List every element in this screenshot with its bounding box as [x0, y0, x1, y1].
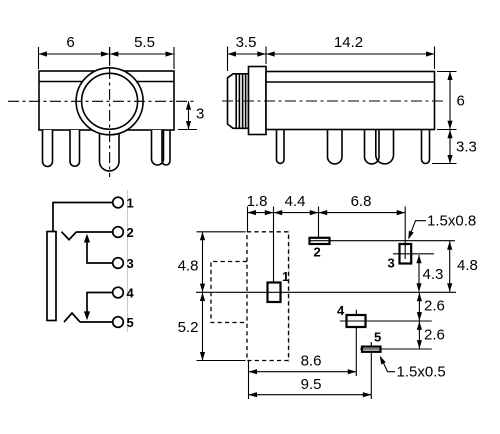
- arrow 9.5 left: [249, 392, 258, 397]
- side body inner edge line: [266, 81, 435, 83]
- pad5 vertical ext: [370, 342, 372, 399]
- svg-text:6.8: 6.8: [351, 193, 372, 210]
- ring contact chevron (pin5): [64, 313, 80, 322]
- pad2 level line: [310, 240, 456, 242]
- front dimension line 6 / 5.5: [39, 53, 175, 55]
- leader arrow 1.5x0.5: [380, 356, 386, 365]
- side pin 1: [277, 130, 285, 164]
- side pin 4 (overlapping): [376, 130, 394, 164]
- arrow 4.8 up: [200, 232, 205, 241]
- pad2: [310, 238, 330, 244]
- dim line 2.6 lower: [418, 321, 420, 349]
- arrow 6.8 right: [397, 210, 406, 215]
- front body inner edge line: [39, 81, 174, 83]
- thread line 1: [235, 74, 237, 128]
- arrow 14.2 right: [426, 51, 435, 56]
- dim line 4.3: [418, 255, 420, 291]
- side pin 3: [365, 130, 380, 164]
- side right ext mid: [437, 129, 457, 131]
- jack sleeve bar: [47, 232, 56, 321]
- svg-text:9.5: 9.5: [301, 376, 322, 393]
- side dim extension mid (flange right): [265, 47, 267, 65]
- bushing outline dashed: [211, 262, 247, 323]
- front body outline: [39, 71, 174, 130]
- arrow 3.3 down: [447, 155, 452, 164]
- side pin 5: [422, 130, 430, 164]
- arrow 5.5 right: [166, 51, 175, 56]
- tip contact V (pin2): [62, 232, 77, 240]
- front pin B: [70, 130, 80, 166]
- arrow 4.4 left: [274, 210, 283, 215]
- leader 1.5x0.8: [409, 221, 426, 238]
- svg-text:3.3: 3.3: [456, 139, 477, 156]
- faint table rule: [127, 190, 129, 332]
- body outline dashed: [247, 232, 289, 361]
- left ext top: [197, 231, 246, 233]
- front pin C (center): [100, 130, 120, 171]
- side dim line 6: [449, 72, 451, 130]
- terminal circle 2: [113, 227, 124, 238]
- svg-text:1: 1: [282, 269, 289, 284]
- arrow 6 up: [447, 72, 452, 81]
- svg-text:6: 6: [457, 93, 465, 110]
- svg-text:3.5: 3.5: [236, 34, 257, 51]
- svg-text:5.2: 5.2: [178, 319, 199, 336]
- svg-text:4.8: 4.8: [457, 257, 478, 274]
- arrow 5.5 left: [110, 51, 119, 56]
- side right ext bottom: [432, 163, 457, 165]
- svg-text:1.8: 1.8: [247, 193, 268, 210]
- arrow 6 right: [101, 51, 110, 56]
- top dimension line: [248, 212, 406, 214]
- svg-text:1: 1: [127, 196, 134, 211]
- svg-text:3: 3: [127, 256, 134, 271]
- arrow 2.6a down: [417, 312, 422, 321]
- side dim extension right (body right): [434, 47, 436, 70]
- thread line 3: [242, 74, 244, 129]
- left ext bottom: [197, 360, 246, 362]
- wire pin2: [77, 231, 113, 233]
- arrow 3.5 right: [257, 51, 266, 56]
- arrow 4.8r up: [447, 241, 452, 250]
- switch arrow up (pin3 to pin2): [84, 234, 90, 243]
- leader arrow 1.5x0.8: [408, 231, 413, 240]
- svg-text:8.6: 8.6: [301, 353, 322, 370]
- thread line 2: [238, 74, 240, 129]
- svg-text:5: 5: [374, 330, 381, 345]
- arrow 8.6 left: [249, 369, 258, 374]
- leader 1.5x0.5: [381, 358, 395, 372]
- svg-text:2: 2: [314, 245, 321, 260]
- pad4 level line: [340, 320, 432, 322]
- svg-text:2.6: 2.6: [424, 297, 445, 314]
- arrow 5.2 up: [200, 293, 205, 302]
- svg-text:4.4: 4.4: [285, 193, 306, 210]
- svg-text:3: 3: [196, 106, 204, 123]
- left dim line 4.8/5.2: [202, 232, 204, 361]
- front dim 3: extension at bottom: [178, 129, 197, 131]
- pad3: [400, 244, 412, 264]
- arrow 8.6 right: [348, 369, 357, 374]
- front dim 3: dimension line: [188, 101, 190, 129]
- arrow 4.3 down: [416, 283, 421, 292]
- terminal circle 5: [113, 317, 124, 328]
- front dim extension line center: [109, 47, 111, 66]
- pad5: [362, 347, 381, 352]
- side body outline: [266, 72, 435, 130]
- svg-text:4.8: 4.8: [178, 258, 199, 275]
- ext line pad3 center: [404, 207, 406, 260]
- side right ext top: [437, 71, 457, 73]
- front jack bushing outer circle: [76, 68, 143, 135]
- pad4 vertical ext: [355, 310, 357, 376]
- side dim extension left (bushing): [227, 47, 229, 72]
- ext line pad2 center: [318, 207, 320, 238]
- arrow 4.3 up: [416, 255, 421, 263]
- svg-text:1.5x0.8: 1.5x0.8: [427, 212, 476, 229]
- arrow 3.3 up: [447, 130, 452, 139]
- arrow 2.6a up: [417, 293, 422, 302]
- arrow 4.8r down: [447, 283, 452, 292]
- front pin D: [152, 130, 164, 165]
- terminal circle 4: [113, 287, 124, 298]
- ext line pad1 center: [273, 207, 275, 283]
- svg-text:5: 5: [127, 315, 134, 330]
- front pin A: [43, 130, 53, 167]
- thread line 4: [245, 74, 247, 129]
- svg-text:5.5: 5.5: [134, 34, 155, 51]
- arrow 2.6b down: [417, 340, 422, 349]
- front jack bushing inner circle: [82, 73, 138, 129]
- front vertical centerline: [109, 47, 111, 177]
- arrow 9.5 right: [363, 392, 372, 397]
- side pin 2: [328, 130, 343, 164]
- side flange: [249, 67, 267, 135]
- arrow 5.2 down: [200, 352, 205, 361]
- dim line 9.5: [249, 394, 372, 396]
- ext line dashed-left bottom: [248, 361, 250, 400]
- svg-text:4.3: 4.3: [423, 266, 444, 283]
- switch arrow down (pin4 to pin5): [84, 311, 90, 320]
- svg-text:2.6: 2.6: [424, 327, 445, 344]
- dim line 4.8 right: [449, 241, 451, 292]
- arrow 2.6b up: [417, 321, 422, 330]
- ext line body left: [247, 207, 249, 232]
- arrow 6 down: [447, 121, 452, 130]
- terminal circle 1: [113, 197, 124, 208]
- svg-text:3: 3: [388, 256, 395, 271]
- redraw pad4 level line through pad: [347, 320, 366, 322]
- pad3 level line: [393, 253, 434, 255]
- arrow 6 left: [39, 51, 48, 56]
- arrow 3.5 left: [228, 51, 237, 56]
- front dim extension line left: [38, 47, 40, 69]
- arrow 14.2 left: [266, 51, 275, 56]
- side horizontal centerline: [222, 100, 443, 102]
- wire pin4 with switch arm: [87, 293, 113, 317]
- pad4: [347, 315, 366, 327]
- front horizontal centerline: [8, 100, 197, 102]
- side dimension line 3.5 / 14.2: [228, 53, 435, 55]
- wire pin1 to sleeve: [53, 203, 113, 232]
- arrow 1.8 right: [265, 210, 274, 215]
- dim line 8.6: [249, 371, 357, 373]
- arrow 4.4 right: [310, 210, 319, 215]
- svg-text:6: 6: [66, 34, 74, 51]
- arrow 3 up: [186, 101, 191, 110]
- dim line 2.6 upper: [418, 293, 420, 321]
- redraw pad5 level line through pad: [362, 348, 381, 350]
- arrow 6.8 left: [319, 210, 328, 215]
- arrow 1.8 left: [248, 210, 257, 215]
- terminal circle 3: [113, 258, 124, 269]
- pcb centerline: [196, 291, 456, 293]
- svg-text:1.5x0.5: 1.5x0.5: [397, 363, 446, 380]
- svg-text:2: 2: [127, 225, 134, 240]
- arrow 3 down: [186, 121, 191, 130]
- side threaded bushing: [228, 74, 249, 129]
- arrow 4.8 down: [200, 284, 205, 293]
- wire pin3 with switch arm: [87, 237, 113, 263]
- pad5 level line: [360, 348, 432, 350]
- svg-text:4: 4: [127, 286, 135, 301]
- side dim line 3.3: [449, 130, 451, 164]
- faint table rule: [288, 230, 290, 363]
- front dim extension line right: [173, 47, 175, 69]
- pad1: [268, 283, 281, 303]
- svg-text:4: 4: [337, 303, 345, 318]
- svg-text:14.2: 14.2: [334, 34, 363, 51]
- wire pin5: [80, 321, 113, 323]
- front pin E (overlapping): [162, 130, 170, 165]
